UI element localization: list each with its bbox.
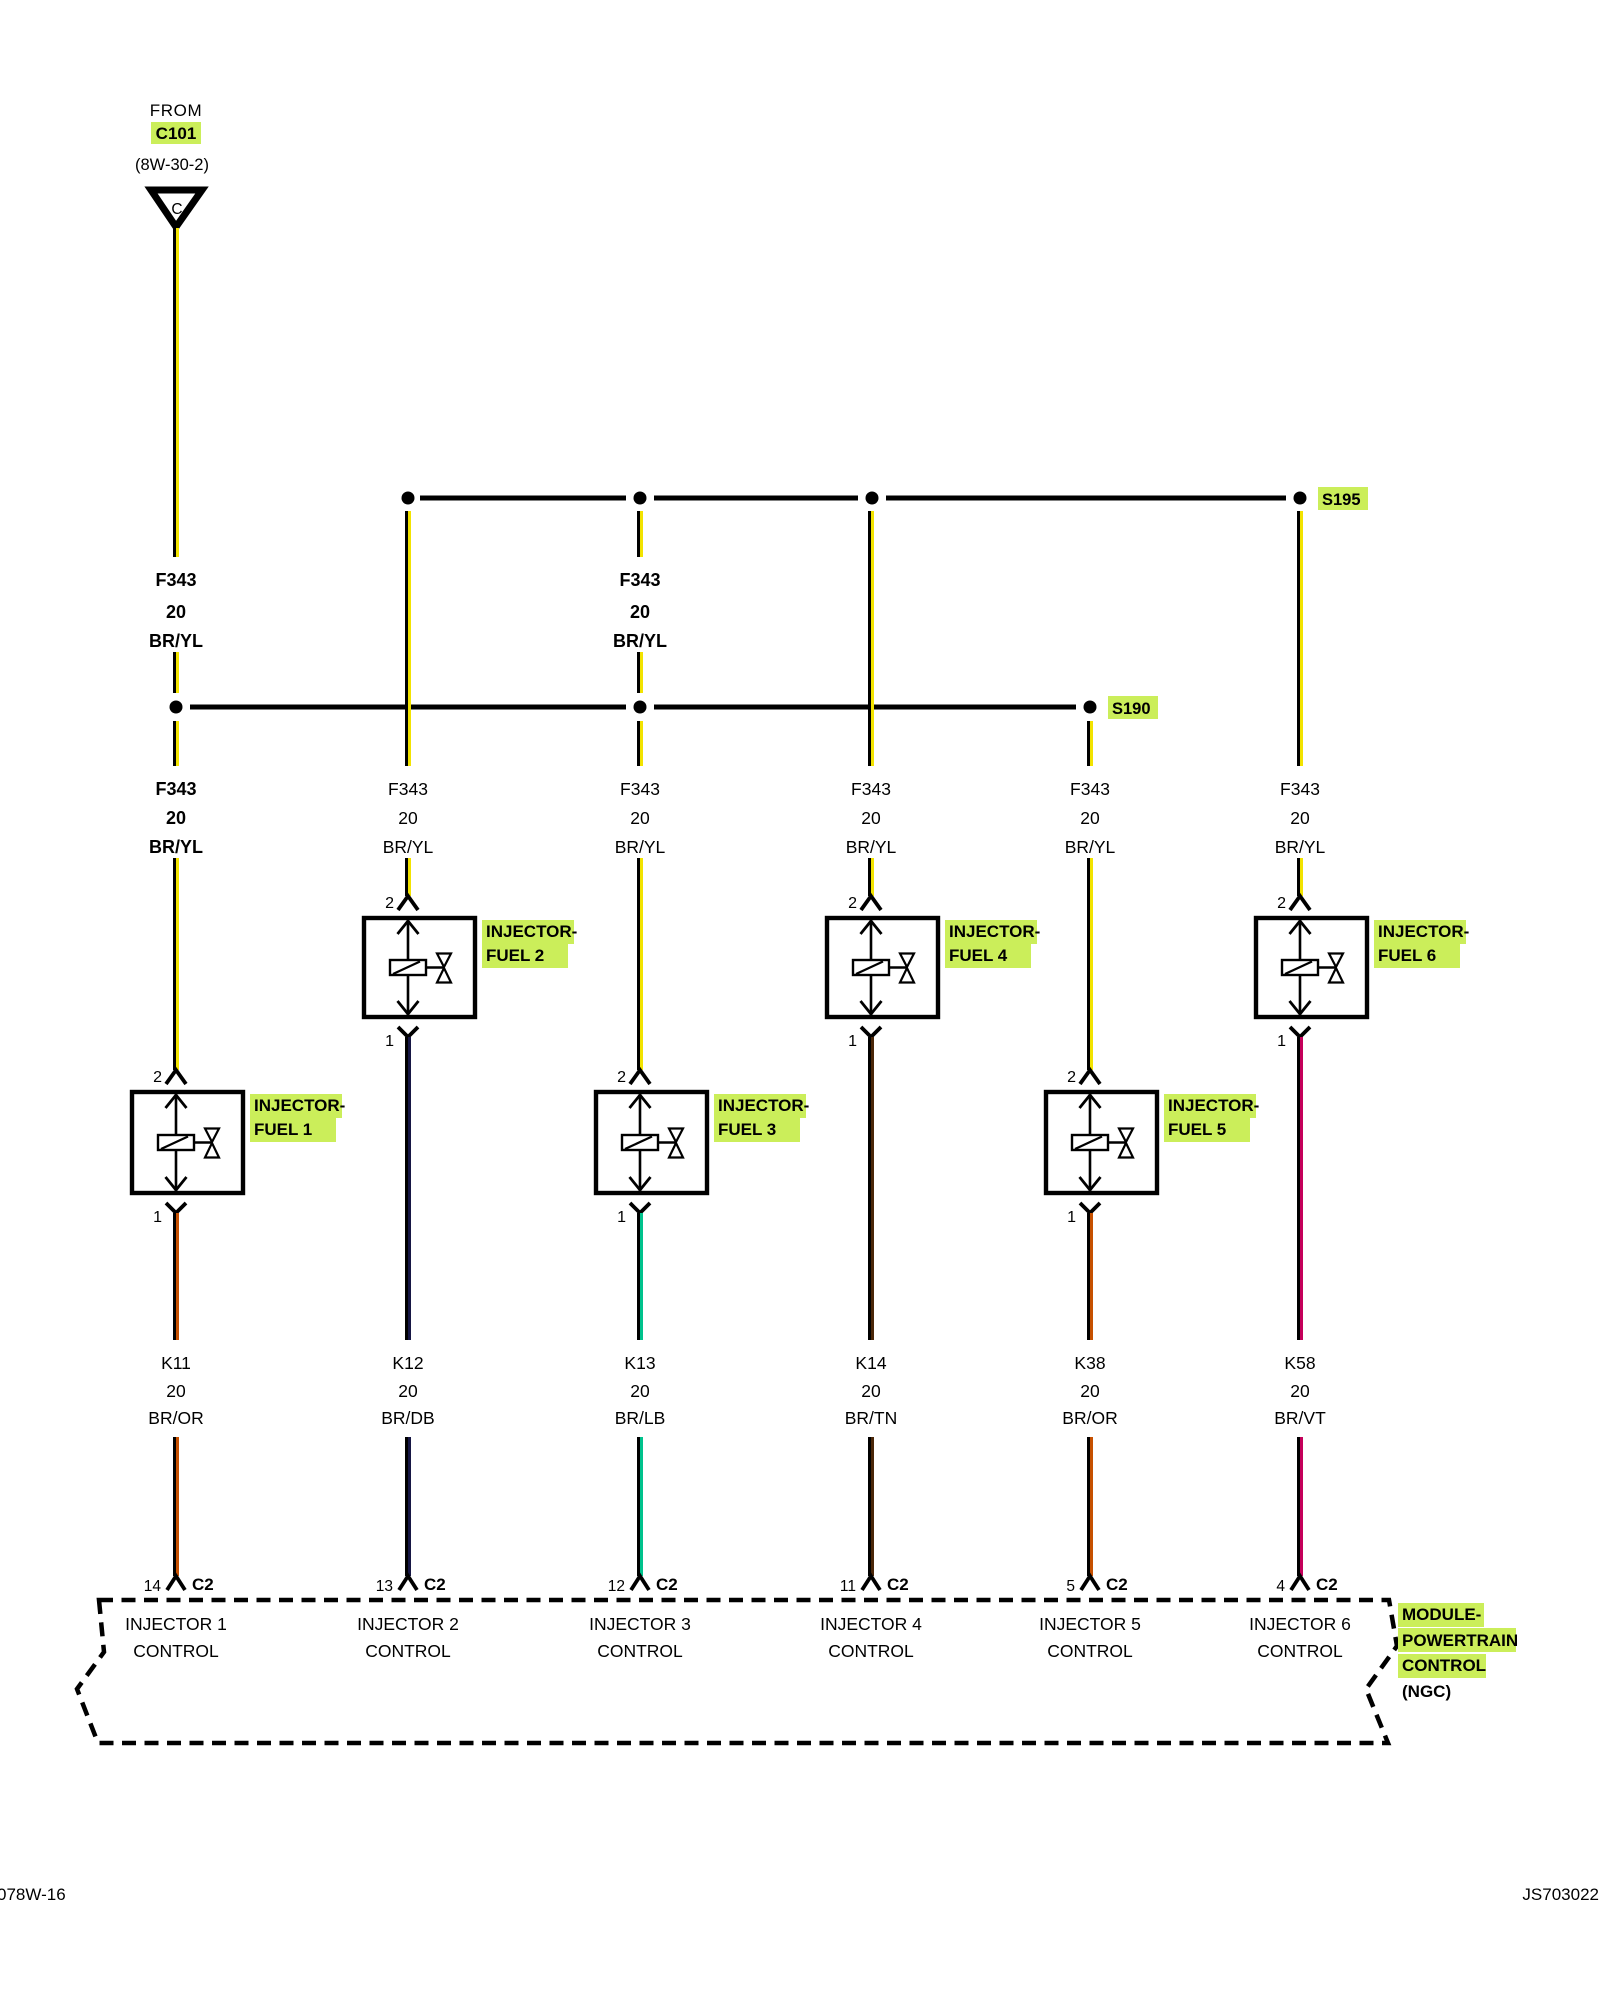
svg-text:BR/OR: BR/OR — [148, 1408, 203, 1428]
reference (8W-30-2) — [135, 156, 209, 174]
svg-text:INJECTOR-: INJECTOR- — [1168, 1096, 1259, 1115]
svg-text:C2: C2 — [656, 1575, 678, 1594]
svg-text:14: 14 — [144, 1578, 162, 1595]
pin 5 C2 of PCM (injector 5 control) — [1066, 1575, 1127, 1595]
svg-text:4: 4 — [1276, 1578, 1285, 1595]
wire F343 col1 above S190 — [173, 652, 179, 693]
svg-text:F343: F343 — [1070, 779, 1110, 799]
svg-text:INJECTOR 3: INJECTOR 3 — [589, 1614, 691, 1634]
svg-text:C2: C2 — [424, 1575, 446, 1594]
svg-text:C: C — [171, 201, 182, 218]
svg-text:20: 20 — [630, 602, 650, 622]
pin 2 of injector 2 — [385, 895, 418, 912]
svg-text:2: 2 — [385, 895, 394, 912]
pin 11 C2 of PCM (injector 4 control) — [840, 1575, 909, 1595]
svg-text:11: 11 — [840, 1578, 856, 1595]
svg-text:FUEL 2: FUEL 2 — [486, 946, 544, 965]
svg-text:078W-16: 078W-16 — [0, 1885, 66, 1904]
pin 1 of injector 6 — [1277, 1027, 1310, 1050]
svg-text:BR/YL: BR/YL — [1275, 837, 1326, 857]
svg-text:2: 2 — [848, 895, 857, 912]
wire K58 col6 upper segment — [1297, 1037, 1303, 1340]
wire K38 col5 upper segment — [1087, 1213, 1093, 1340]
net label INJECTOR 5 CONTROL — [1039, 1614, 1141, 1661]
wire K12 col2 lower segment — [405, 1437, 411, 1576]
net label INJECTOR 4 CONTROL — [820, 1614, 922, 1661]
wire F343 col2 from S195 — [405, 511, 411, 766]
svg-text:(NGC): (NGC) — [1402, 1682, 1451, 1701]
svg-text:K58: K58 — [1284, 1353, 1315, 1373]
value label K58 20 BR/VT — [1274, 1353, 1326, 1428]
wire F343 col5 from S190 — [1087, 721, 1093, 766]
wire F343 col3 to injector 3 — [637, 858, 643, 1070]
svg-text:FUEL 5: FUEL 5 — [1168, 1120, 1226, 1139]
pin 2 of injector 1 — [153, 1069, 186, 1086]
junction S195 at col4 — [866, 492, 879, 505]
value label K38 20 BR/OR — [1062, 1353, 1117, 1428]
svg-text:INJECTOR 1: INJECTOR 1 — [125, 1614, 227, 1634]
svg-text:20: 20 — [861, 1381, 881, 1401]
svg-text:1: 1 — [1067, 1209, 1076, 1226]
wire F343 col3 below S195 — [637, 511, 643, 557]
svg-text:K12: K12 — [392, 1353, 423, 1373]
value label K11 20 BR/OR — [148, 1353, 203, 1428]
svg-text:BR/TN: BR/TN — [845, 1408, 898, 1428]
svg-text:1: 1 — [848, 1033, 857, 1050]
svg-text:BR/LB: BR/LB — [615, 1408, 666, 1428]
svg-text:BR/OR: BR/OR — [1062, 1408, 1117, 1428]
component label INJECTOR-FUEL 1 — [250, 1094, 345, 1142]
wire F343 col4 to injector 4 — [868, 858, 874, 896]
svg-text:C2: C2 — [1106, 1575, 1128, 1594]
wire K11 col1 lower segment — [173, 1437, 179, 1576]
svg-text:K11: K11 — [161, 1353, 191, 1373]
wire F343 col1 below S190 — [173, 721, 179, 766]
wire K14 col4 lower segment — [868, 1437, 874, 1576]
svg-text:20: 20 — [166, 808, 186, 828]
wire K13 col3 upper segment — [637, 1213, 643, 1340]
svg-text:BR/YL: BR/YL — [846, 837, 897, 857]
junction S190 at col1 — [170, 701, 183, 714]
svg-text:13: 13 — [376, 1578, 393, 1595]
svg-text:F343: F343 — [620, 779, 660, 799]
svg-text:C2: C2 — [1316, 1575, 1338, 1594]
svg-text:BR/YL: BR/YL — [613, 631, 667, 651]
net label INJECTOR 1 CONTROL — [125, 1614, 227, 1661]
sheet number 078W-16 — [0, 1885, 66, 1904]
pin 1 of injector 1 — [153, 1203, 186, 1226]
svg-text:CONTROL: CONTROL — [133, 1641, 219, 1661]
wire K13 col3 lower segment — [637, 1437, 643, 1576]
value label F343 20 BR/YL col3 upper — [613, 570, 667, 651]
pin 1 of injector 2 — [385, 1027, 418, 1050]
pin 2 of injector 3 — [617, 1069, 650, 1086]
svg-text:2: 2 — [1277, 895, 1286, 912]
injector INJECTOR-FUEL 5 — [1046, 1092, 1157, 1193]
svg-text:CONTROL: CONTROL — [1402, 1656, 1486, 1675]
injector INJECTOR-FUEL 2 — [364, 918, 475, 1017]
pin 2 of injector 5 — [1067, 1069, 1100, 1086]
svg-text:INJECTOR-: INJECTOR- — [1378, 922, 1469, 941]
svg-text:CONTROL: CONTROL — [597, 1641, 683, 1661]
svg-text:(8W-30-2): (8W-30-2) — [135, 156, 209, 174]
svg-text:BR/YL: BR/YL — [383, 837, 434, 857]
injector INJECTOR-FUEL 4 — [827, 918, 938, 1017]
svg-text:JS703022: JS703022 — [1522, 1885, 1599, 1904]
wire F343 col4 from S195 — [868, 511, 874, 766]
svg-text:FUEL 4: FUEL 4 — [949, 946, 1008, 965]
svg-text:INJECTOR-: INJECTOR- — [486, 922, 577, 941]
svg-text:20: 20 — [1290, 1381, 1310, 1401]
svg-text:20: 20 — [861, 808, 881, 828]
wire F343 col1 upper — [173, 228, 179, 557]
svg-text:S195: S195 — [1322, 491, 1361, 509]
svg-text:FUEL 3: FUEL 3 — [718, 1120, 776, 1139]
svg-text:INJECTOR 4: INJECTOR 4 — [820, 1614, 922, 1634]
svg-text:CONTROL: CONTROL — [828, 1641, 914, 1661]
pin 4 C2 of PCM (injector 6 control) — [1276, 1575, 1337, 1595]
svg-text:F343: F343 — [388, 779, 428, 799]
pin 14 C2 of PCM (injector 1 control) — [144, 1575, 214, 1595]
svg-text:INJECTOR 2: INJECTOR 2 — [357, 1614, 459, 1634]
wire splice bus S195 — [420, 496, 1286, 501]
svg-text:20: 20 — [1080, 1381, 1100, 1401]
pin 1 of injector 3 — [617, 1203, 650, 1226]
pin 1 of injector 4 — [848, 1027, 881, 1050]
wire K11 col1 upper segment — [173, 1213, 179, 1340]
svg-text:K14: K14 — [855, 1353, 886, 1373]
component label INJECTOR-FUEL 3 — [714, 1094, 809, 1142]
svg-text:F343: F343 — [155, 779, 196, 799]
svg-text:BR/YL: BR/YL — [1065, 837, 1116, 857]
component label INJECTOR-FUEL 5 — [1164, 1094, 1259, 1142]
value label K13 20 BR/LB — [615, 1353, 666, 1428]
splice label S195 — [1318, 487, 1368, 510]
wire F343 col2 to injector 2 — [405, 858, 411, 896]
wire F343 col1 to injector 1 — [173, 858, 179, 1070]
svg-text:INJECTOR 5: INJECTOR 5 — [1039, 1614, 1141, 1634]
wire K12 col2 upper segment — [405, 1037, 411, 1340]
svg-text:C101: C101 — [156, 124, 197, 143]
svg-text:F343: F343 — [619, 570, 660, 590]
svg-text:20: 20 — [630, 808, 650, 828]
svg-text:C2: C2 — [887, 1575, 909, 1594]
junction S195 at col2 — [402, 492, 415, 505]
module label MODULE-POWERTRAIN CONTROL (NGC) — [1398, 1603, 1518, 1701]
svg-text:20: 20 — [1290, 808, 1310, 828]
value label F343 20 BR/YL col3 — [615, 779, 666, 857]
svg-text:INJECTOR 6: INJECTOR 6 — [1249, 1614, 1351, 1634]
wire F343 col5 to injector 5 — [1087, 858, 1093, 1070]
wire splice bus S190 — [190, 705, 1076, 710]
svg-text:INJECTOR-: INJECTOR- — [949, 922, 1040, 941]
component label INJECTOR-FUEL 4 — [945, 920, 1040, 968]
svg-text:INJECTOR-: INJECTOR- — [254, 1096, 345, 1115]
node FROM label — [150, 101, 202, 120]
svg-text:F343: F343 — [1280, 779, 1320, 799]
module MODULE-POWERTRAIN CONTROL (NGC) dashed outline — [77, 1600, 1397, 1743]
svg-text:K38: K38 — [1074, 1353, 1105, 1373]
svg-text:INJECTOR-: INJECTOR- — [718, 1096, 809, 1115]
svg-text:S190: S190 — [1112, 700, 1151, 718]
component label INJECTOR-FUEL 2 — [482, 920, 577, 968]
svg-text:BR/VT: BR/VT — [1274, 1408, 1326, 1428]
net label INJECTOR 3 CONTROL — [589, 1614, 691, 1661]
svg-text:CONTROL: CONTROL — [1047, 1641, 1133, 1661]
svg-text:20: 20 — [166, 602, 186, 622]
svg-text:C2: C2 — [192, 1575, 214, 1594]
junction S195 at col6 — [1294, 492, 1307, 505]
svg-text:20: 20 — [398, 1381, 418, 1401]
svg-text:5: 5 — [1066, 1578, 1075, 1595]
svg-text:CONTROL: CONTROL — [1257, 1641, 1343, 1661]
connector C101 label — [151, 122, 201, 144]
svg-text:BR/DB: BR/DB — [381, 1408, 434, 1428]
value label F343 20 BR/YL col6 — [1275, 779, 1326, 857]
svg-text:20: 20 — [166, 1381, 186, 1401]
svg-text:1: 1 — [617, 1209, 626, 1226]
svg-text:BR/YL: BR/YL — [615, 837, 666, 857]
svg-text:20: 20 — [630, 1381, 650, 1401]
value label F343 20 BR/YL col4 — [846, 779, 897, 857]
wire F343 col3 above S190 — [637, 652, 643, 693]
wire F343 col3 below S190 — [637, 721, 643, 766]
svg-text:CONTROL: CONTROL — [365, 1641, 451, 1661]
component label INJECTOR-FUEL 6 — [1374, 920, 1469, 968]
svg-text:2: 2 — [1067, 1069, 1076, 1086]
wire F343 col6 to injector 6 — [1297, 858, 1303, 896]
svg-text:K13: K13 — [624, 1353, 655, 1373]
svg-text:FUEL 6: FUEL 6 — [1378, 946, 1436, 965]
value label F343 20 BR/YL col1 lower — [149, 779, 203, 857]
junction S195 at col3 — [634, 492, 647, 505]
wire K38 col5 lower segment — [1087, 1437, 1093, 1576]
pin 13 C2 of PCM (injector 2 control) — [376, 1575, 446, 1595]
svg-text:BR/YL: BR/YL — [149, 631, 203, 651]
svg-text:12: 12 — [608, 1578, 625, 1595]
svg-text:MODULE-: MODULE- — [1402, 1605, 1481, 1624]
splice label S190 — [1108, 696, 1158, 719]
pin 12 C2 of PCM (injector 3 control) — [608, 1575, 678, 1595]
drawing number JS703022 — [1522, 1885, 1599, 1904]
off-page connector triangle C — [151, 190, 202, 227]
svg-text:2: 2 — [617, 1069, 626, 1086]
value label K12 20 BR/DB — [381, 1353, 434, 1428]
pin 2 of injector 6 — [1277, 895, 1310, 912]
svg-text:1: 1 — [385, 1033, 394, 1050]
injector INJECTOR-FUEL 1 — [132, 1092, 243, 1193]
injector INJECTOR-FUEL 3 — [596, 1092, 707, 1193]
svg-text:FUEL 1: FUEL 1 — [254, 1120, 312, 1139]
value label K14 20 BR/TN — [845, 1353, 898, 1428]
wire K58 col6 lower segment — [1297, 1437, 1303, 1576]
pin 2 of injector 4 — [848, 895, 881, 912]
junction S190 at col5 — [1084, 701, 1097, 714]
svg-text:1: 1 — [1277, 1033, 1286, 1050]
junction S190 at col3 — [634, 701, 647, 714]
svg-text:F343: F343 — [155, 570, 196, 590]
svg-text:FROM: FROM — [150, 101, 202, 120]
svg-text:POWERTRAIN: POWERTRAIN — [1402, 1631, 1518, 1650]
svg-text:BR/YL: BR/YL — [149, 837, 203, 857]
wire K14 col4 upper segment — [868, 1037, 874, 1340]
svg-text:1: 1 — [153, 1209, 162, 1226]
value label F343 20 BR/YL col5 — [1065, 779, 1116, 857]
value label F343 20 BR/YL col1 upper — [149, 570, 203, 651]
svg-text:20: 20 — [398, 808, 418, 828]
svg-text:2: 2 — [153, 1069, 162, 1086]
wire F343 col6 from S195 — [1297, 511, 1303, 766]
value label F343 20 BR/YL col2 — [383, 779, 434, 857]
net label INJECTOR 6 CONTROL — [1249, 1614, 1351, 1661]
svg-text:F343: F343 — [851, 779, 891, 799]
svg-text:20: 20 — [1080, 808, 1100, 828]
net label INJECTOR 2 CONTROL — [357, 1614, 459, 1661]
injector INJECTOR-FUEL 6 — [1256, 918, 1367, 1017]
pin 1 of injector 5 — [1067, 1203, 1100, 1226]
